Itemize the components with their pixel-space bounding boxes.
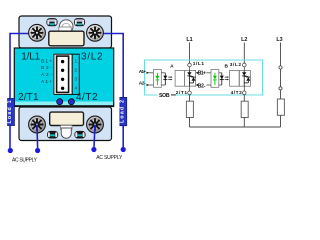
pin labels B1+ B2- A2- A1+ (41, 58, 52, 84)
clip latch left (bottom) (47, 131, 58, 139)
terminal sockets (blue) (57, 99, 63, 105)
node AC supply dot right-outer (121, 147, 126, 152)
label SOB (158, 92, 172, 98)
svg-text:2/T1: 2/T1 (176, 90, 188, 96)
svg-text:L2: L2 (241, 37, 247, 43)
svg-text:4: 4 (74, 86, 77, 92)
load resistor R2 (241, 101, 248, 117)
svg-text:2/T1: 2/T1 (18, 92, 39, 103)
clip latch right (bottom) (74, 131, 85, 139)
wire R1 to bus (189, 118, 191, 128)
input arrow B1+ (196, 72, 199, 74)
wire B1+ rail (206, 72, 211, 74)
wire L3 drop (280, 43, 282, 100)
wire bottom-right screw to AC supply (94, 125, 95, 148)
svg-text:3/L2: 3/L2 (230, 62, 242, 68)
wire 2/T1 to load resistor (189, 95, 191, 102)
terminal cover plate top (ivory) (49, 31, 84, 46)
wire L1 drop (189, 43, 191, 64)
SCR pair A (187, 70, 195, 86)
diode B (reverse protection) (220, 73, 224, 85)
svg-text:3/L2: 3/L2 (81, 52, 103, 63)
svg-text:2: 2 (74, 68, 77, 74)
svg-text:B1+: B1+ (41, 58, 52, 63)
wire SCR box B to terminal 4/T2 (243, 86, 245, 91)
clip latch left (top) (46, 18, 57, 26)
wire B2- rail (206, 84, 211, 86)
wire A2- rail (149, 84, 154, 86)
wire AC supply left (Load 1 side) (10, 34, 37, 149)
node terminal 1/L1 (188, 63, 192, 67)
node AC supply dot left-outer (8, 148, 13, 153)
DIN knob dome (bottom) (61, 125, 72, 129)
wire LED box B to diode (219, 72, 222, 74)
svg-text:L1: L1 (186, 37, 192, 43)
node terminal 3/L2 (243, 63, 247, 67)
node L3 pass-through top (279, 66, 282, 69)
svg-text:B1+: B1+ (198, 70, 206, 76)
wire L2 drop (243, 43, 245, 64)
terminal cover plate bottom (ivory) (50, 112, 84, 125)
svg-text:Load 2: Load 2 (119, 100, 125, 123)
svg-text:A2-: A2- (41, 72, 52, 77)
svg-text:B: B (224, 64, 228, 70)
SOB outline box (145, 60, 263, 95)
control connector outer box (54, 54, 72, 94)
diode A (reverse protection) (163, 73, 167, 85)
node AC supply dot left-inner (35, 148, 40, 153)
SCR box A (185, 70, 196, 86)
relay bottom cap (19, 107, 112, 141)
svg-text:3: 3 (74, 77, 77, 83)
wire bottom-left screw to AC supply (36, 125, 39, 149)
svg-text:A: A (170, 64, 174, 70)
SOB label dash (171, 94, 176, 96)
wire A1+ rail (149, 72, 154, 74)
LED box B (211, 70, 219, 88)
node AC supply dot right-inner (91, 147, 96, 152)
DIN knob dome (top) (59, 20, 73, 34)
input arrow B2- (196, 84, 199, 86)
Load 2 tag (119, 97, 126, 125)
screw bottom-left (29, 116, 46, 133)
load resistor R1 (186, 101, 193, 117)
svg-text:A1+: A1+ (139, 69, 147, 75)
svg-text:L3: L3 (276, 37, 282, 43)
screw top-left (29, 24, 46, 41)
wire 4/T2 to load resistor (243, 95, 245, 102)
pin numbers (74, 59, 77, 92)
wire LED box A to diode (161, 72, 165, 74)
svg-text:AC SUPPLY: AC SUPPLY (12, 158, 38, 164)
wire terminal to SCR box B (243, 67, 245, 71)
body bottom edge line (15, 105, 113, 106)
wire R3 to bus (280, 115, 282, 127)
node L3 pass-through bottom (279, 87, 282, 90)
driver box B (230, 70, 240, 86)
wire R2 to bus (243, 118, 245, 128)
pin number strip (72, 54, 79, 94)
input arrow A1+ (147, 72, 150, 74)
opto arrows B (225, 77, 228, 79)
svg-text:A1+: A1+ (41, 79, 52, 84)
control connector pin strip (57, 56, 69, 92)
body bottom light strip (15, 102, 113, 106)
wire neutral bus (190, 126, 281, 128)
load resistor R3 (277, 99, 284, 115)
relay top cap (19, 16, 112, 48)
LED A (156, 73, 160, 85)
input arrow A2- (147, 84, 150, 86)
pin dots (61, 60, 64, 63)
wire SCR box A to terminal 2/T1 (189, 86, 191, 91)
wire terminal to SCR box A (189, 67, 191, 71)
svg-text:B2-: B2- (198, 83, 206, 89)
driver box A (175, 70, 185, 86)
LED box A (154, 70, 162, 88)
svg-text:1: 1 (74, 59, 77, 65)
clip latch right (top) (74, 18, 85, 26)
svg-text:1/L1: 1/L1 (193, 61, 205, 67)
svg-text:1/L1: 1/L1 (21, 52, 40, 63)
svg-text:SOB: SOB (159, 93, 170, 99)
node terminal 4/T2 (243, 91, 247, 95)
screw bottom-right (87, 116, 104, 133)
svg-text:Load 1: Load 1 (7, 100, 13, 123)
screw top-right (87, 24, 104, 41)
Load 1 tag (7, 99, 14, 126)
svg-text:4/T2: 4/T2 (231, 90, 243, 96)
LED B (213, 73, 217, 85)
SCR box B (239, 70, 250, 86)
opto arrows A (168, 77, 171, 79)
svg-text:B2-: B2- (41, 65, 52, 70)
wire AC supply right (Load 2 side) (95, 34, 123, 148)
SCR pair B (242, 70, 250, 86)
svg-text:AC SUPPLY: AC SUPPLY (96, 155, 123, 161)
node terminal 2/T1 (188, 91, 192, 95)
relay cyan body (14, 48, 113, 107)
svg-text:A2-: A2- (139, 81, 146, 87)
